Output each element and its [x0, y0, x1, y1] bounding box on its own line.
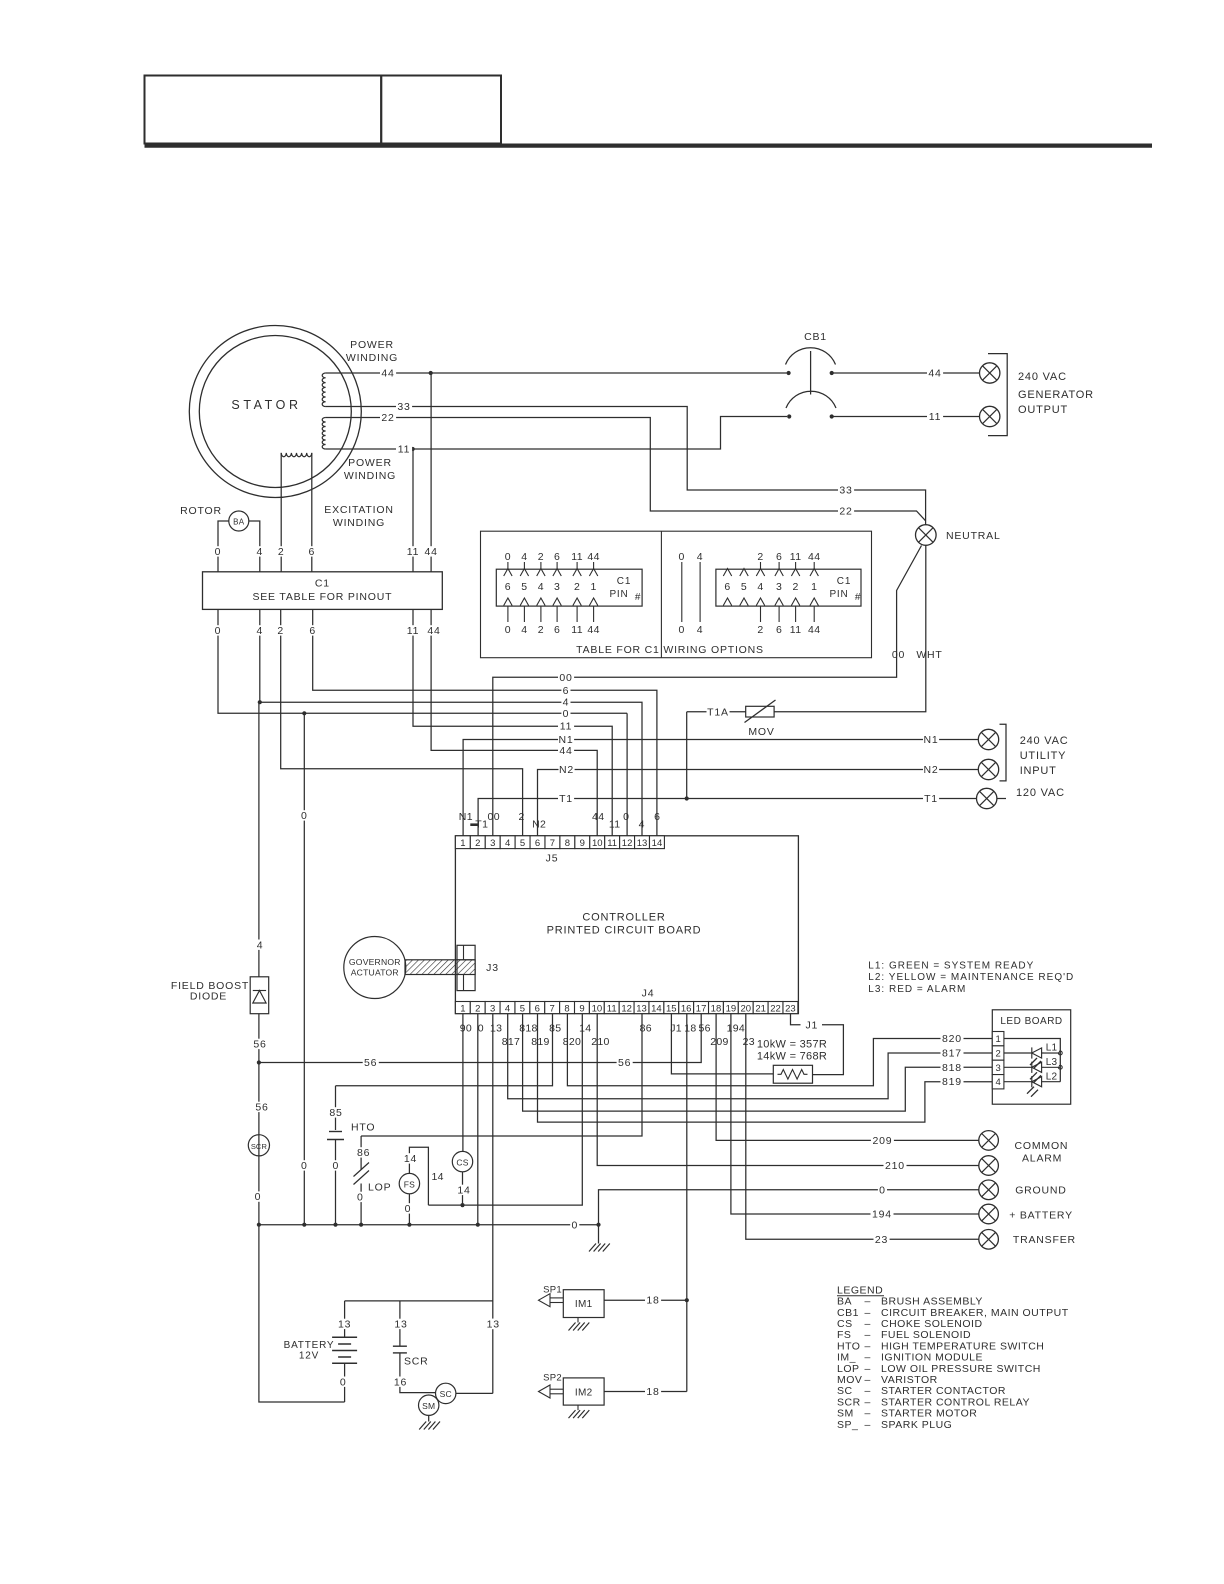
- resistor 357R/768R box: [773, 1065, 812, 1083]
- LED node circles: [1058, 1051, 1062, 1055]
- label 817: [941, 1048, 964, 1058]
- svg-text:210: 210: [885, 1160, 905, 1172]
- svg-text:22: 22: [381, 412, 394, 424]
- svg-text:CB1: CB1: [837, 1307, 859, 1319]
- svg-text:11: 11: [407, 546, 420, 558]
- junction left rail bottom: [257, 1223, 261, 1227]
- label 0: [356, 1192, 365, 1202]
- wire 0 below C1: [218, 609, 627, 713]
- wire 56 pin17: [259, 1014, 701, 1063]
- svg-text:6: 6: [554, 624, 560, 636]
- svg-text:CONTROLLER: CONTROLLER: [582, 912, 665, 924]
- svg-text:N2: N2: [532, 819, 546, 831]
- CB1 contact dots: [787, 371, 791, 375]
- wire 209 pin18 to lamp: [716, 1014, 979, 1141]
- svg-text:56: 56: [253, 1039, 266, 1051]
- label 56: [363, 1057, 379, 1067]
- left pinout box: [496, 569, 642, 606]
- svg-text:2: 2: [995, 1049, 1000, 1060]
- svg-text:16: 16: [681, 1003, 692, 1014]
- wire N2: [538, 770, 979, 836]
- svg-text:–: –: [865, 1340, 871, 1352]
- svg-text:85: 85: [329, 1107, 342, 1119]
- wire 13 pin3 down: [492, 1014, 494, 1394]
- wire SCR to SC: [400, 1353, 436, 1393]
- label 18: [645, 1386, 661, 1396]
- svg-text:SM: SM: [837, 1408, 854, 1420]
- svg-text:4: 4: [697, 551, 704, 563]
- label 56: [254, 1102, 270, 1112]
- connector J3: [457, 945, 475, 990]
- svg-text:44: 44: [808, 624, 820, 636]
- stator inner circle: [199, 336, 351, 488]
- svg-text:6: 6: [776, 551, 782, 563]
- svg-text:11: 11: [398, 444, 411, 456]
- wire N1: [463, 740, 978, 836]
- svg-text:0: 0: [505, 551, 511, 563]
- svg-text:6: 6: [724, 581, 730, 593]
- varistor MOV box: [746, 706, 774, 717]
- svg-text:23: 23: [743, 1036, 755, 1048]
- label 2: [276, 625, 285, 635]
- junction 0 rail: [302, 1223, 306, 1227]
- wire HTO top: [335, 1086, 337, 1130]
- svg-text:14: 14: [651, 1003, 662, 1014]
- svg-text:0: 0: [478, 1023, 484, 1035]
- varistor MOV diagonal: [745, 700, 776, 723]
- svg-text:44: 44: [427, 625, 440, 637]
- label J1: [804, 1020, 820, 1030]
- label 6 inline: [561, 685, 570, 695]
- svg-text:18: 18: [646, 1386, 659, 1398]
- svg-text:BATTERY: BATTERY: [284, 1340, 335, 1351]
- svg-text:–: –: [865, 1374, 871, 1386]
- LED board box: [992, 1010, 1070, 1104]
- svg-text:2: 2: [277, 625, 284, 637]
- lamp 210: [979, 1156, 999, 1176]
- label 44: [423, 546, 439, 556]
- svg-text:4: 4: [995, 1077, 1000, 1088]
- svg-text:2: 2: [518, 811, 524, 823]
- label 11: [927, 411, 943, 421]
- svg-text:5: 5: [520, 838, 525, 849]
- svg-text:T1A: T1A: [707, 706, 729, 718]
- svg-text:90: 90: [460, 1023, 472, 1035]
- actuator shaft hatched: [405, 960, 475, 975]
- controller PCB box: [455, 836, 798, 1014]
- label 33 inline: [396, 401, 412, 411]
- stator outer circle: [189, 326, 361, 498]
- wire 0 branch down: [303, 713, 305, 1224]
- svg-text:DIODE: DIODE: [190, 991, 227, 1003]
- svg-text:11: 11: [571, 624, 583, 636]
- wire SC to 13: [456, 1392, 493, 1394]
- svg-text:85: 85: [549, 1023, 561, 1035]
- title block heavy rule: [145, 144, 1153, 148]
- svg-text:11: 11: [607, 838, 617, 849]
- wire 2 below C1: [281, 609, 523, 835]
- svg-text:14: 14: [652, 838, 663, 849]
- svg-text:UTILITY: UTILITY: [1020, 750, 1067, 762]
- junction 11: [411, 447, 415, 451]
- svg-text:0: 0: [678, 624, 685, 636]
- svg-text:9: 9: [579, 1003, 584, 1014]
- svg-text:N2: N2: [559, 764, 574, 776]
- svg-text:#: #: [855, 592, 861, 603]
- label 4: [255, 546, 264, 556]
- svg-text:BRUSH ASSEMBLY: BRUSH ASSEMBLY: [881, 1296, 983, 1308]
- svg-text:TRANSFER: TRANSFER: [1013, 1234, 1076, 1246]
- label 13: [337, 1319, 353, 1329]
- svg-text:BA: BA: [233, 518, 245, 527]
- left rail below diode: [258, 1014, 260, 1225]
- wire 819 net: [538, 1014, 993, 1123]
- svg-text:7: 7: [550, 838, 555, 849]
- svg-text:4: 4: [563, 697, 570, 709]
- wire 86 pin13 to LOP: [361, 1014, 642, 1136]
- HTO switch bars: [329, 1131, 342, 1133]
- svg-text:00: 00: [487, 811, 499, 823]
- wire 818 net: [523, 1014, 993, 1112]
- svg-text:ACTUATOR: ACTUATOR: [351, 968, 399, 978]
- svg-text:FS: FS: [837, 1329, 851, 1341]
- svg-text:56: 56: [699, 1023, 711, 1035]
- svg-text:0: 0: [215, 546, 222, 558]
- svg-text:T1: T1: [924, 793, 938, 805]
- svg-text:209: 209: [872, 1135, 892, 1147]
- svg-text:#: #: [635, 592, 641, 603]
- svg-text:SC: SC: [440, 1389, 452, 1399]
- C1 connector box: [203, 572, 443, 610]
- svg-text:3: 3: [995, 1063, 1000, 1074]
- label 11: [405, 625, 421, 635]
- svg-text:5: 5: [741, 581, 747, 593]
- svg-text:MOV: MOV: [837, 1374, 862, 1386]
- label 44: [927, 368, 943, 378]
- svg-text:819: 819: [942, 1076, 962, 1088]
- svg-text:6: 6: [535, 838, 540, 849]
- junction pin2 rail: [476, 1223, 480, 1227]
- label 11: [405, 546, 421, 556]
- junction 44: [429, 371, 433, 375]
- power winding coil upper: [322, 373, 325, 407]
- wire 44 drop to C1: [430, 373, 432, 572]
- junction 56 rail: [257, 1060, 261, 1064]
- label 4: [255, 625, 264, 635]
- svg-text:11: 11: [407, 625, 420, 637]
- wire BA left to C1 pin 0: [218, 521, 229, 572]
- svg-text:FS: FS: [404, 1179, 415, 1189]
- svg-text:19: 19: [726, 1003, 737, 1014]
- wire IM1 18: [604, 1299, 687, 1301]
- starter contactor SC: [436, 1383, 456, 1403]
- wire 6 excitation to C1: [311, 453, 313, 572]
- svg-text:4: 4: [697, 624, 704, 636]
- svg-text:VARISTOR: VARISTOR: [881, 1374, 938, 1386]
- label 209: [871, 1135, 894, 1145]
- svg-text:SEE TABLE FOR PINOUT: SEE TABLE FOR PINOUT: [252, 591, 392, 603]
- label 11 inline: [558, 721, 574, 731]
- wire 2 excitation to C1: [280, 453, 282, 572]
- svg-text:PRINTED CIRCUIT BOARD: PRINTED CIRCUIT BOARD: [547, 925, 702, 937]
- svg-text:–: –: [865, 1363, 871, 1375]
- label 0 inline: [561, 708, 570, 718]
- wire 6 below C1: [313, 609, 657, 835]
- wire 820 net: [567, 1014, 992, 1086]
- svg-text:SPARK PLUG: SPARK PLUG: [881, 1419, 952, 1431]
- svg-text:820: 820: [942, 1033, 962, 1045]
- svg-text:MOV: MOV: [748, 726, 774, 738]
- svg-text:LOP: LOP: [368, 1182, 391, 1194]
- svg-text:13: 13: [394, 1319, 407, 1331]
- svg-text:NEUTRAL: NEUTRAL: [946, 530, 1001, 542]
- label 14: [403, 1153, 419, 1163]
- svg-text:CS: CS: [456, 1157, 468, 1167]
- svg-text:0: 0: [405, 1203, 412, 1215]
- wire 11 drop to C1: [412, 449, 414, 572]
- label 16: [393, 1377, 409, 1387]
- svg-text:T1: T1: [559, 793, 573, 805]
- svg-text:56: 56: [255, 1102, 268, 1114]
- wire T1A: [687, 711, 746, 713]
- ground symbol IM2: [577, 1405, 579, 1410]
- svg-text:7: 7: [550, 1003, 555, 1014]
- svg-text:PIN: PIN: [829, 589, 848, 600]
- svg-text:SP1: SP1: [543, 1284, 562, 1295]
- wire 18 pin16 down: [686, 1014, 688, 1392]
- spark plug SP1 arrow: [550, 1297, 563, 1299]
- wire BA right to C1 pin 4: [249, 521, 260, 572]
- svg-text:10: 10: [592, 838, 603, 849]
- svg-text:4: 4: [256, 546, 263, 558]
- neutral lamp: [916, 525, 937, 546]
- svg-text:18: 18: [684, 1023, 696, 1035]
- svg-text:13: 13: [637, 838, 648, 849]
- svg-text:WINDING: WINDING: [344, 470, 396, 482]
- right pinout box: [716, 569, 861, 606]
- svg-text:LED BOARD: LED BOARD: [1000, 1016, 1062, 1027]
- CB1 tie bar: [810, 351, 812, 395]
- label 0: [300, 1160, 309, 1170]
- label 0: [570, 1220, 579, 1230]
- label 33 lower: [838, 485, 854, 495]
- svg-text:14: 14: [432, 1171, 444, 1183]
- svg-text:4: 4: [521, 624, 527, 636]
- wire 44 stator to CB1: [326, 372, 787, 374]
- svg-text:56: 56: [364, 1057, 377, 1069]
- junction T1A on T1: [685, 796, 689, 800]
- svg-text:14kW = 768R: 14kW = 768R: [757, 1051, 827, 1063]
- wire 11 stator run: [326, 417, 787, 450]
- svg-text:11: 11: [609, 819, 621, 831]
- svg-text:6: 6: [563, 685, 570, 697]
- svg-text:0: 0: [563, 708, 570, 720]
- label 13: [487, 1319, 503, 1329]
- svg-text:13: 13: [487, 1319, 500, 1331]
- svg-text:44: 44: [928, 368, 941, 380]
- svg-text:1: 1: [590, 581, 596, 593]
- label 0: [403, 1203, 412, 1213]
- svg-text:EXCITATION: EXCITATION: [324, 504, 393, 516]
- right pinout pins: [723, 569, 731, 577]
- svg-text:6: 6: [309, 625, 316, 637]
- junction LOP rail: [359, 1223, 363, 1227]
- table outer box: [481, 531, 872, 658]
- svg-text:J1: J1: [805, 1019, 818, 1031]
- label 56: [617, 1057, 633, 1067]
- wire 0 into J5 pin12: [626, 713, 628, 836]
- svg-text:194: 194: [727, 1023, 745, 1035]
- generator output bracket: [988, 354, 1007, 436]
- svg-text:WINDING: WINDING: [333, 517, 385, 529]
- svg-text:10: 10: [592, 1003, 603, 1014]
- svg-text:IM1: IM1: [575, 1299, 593, 1310]
- svg-text:11: 11: [560, 721, 573, 733]
- wire 194 pin19 to lamp: [731, 1014, 979, 1214]
- svg-text:L3: L3: [1046, 1057, 1058, 1068]
- svg-text:0: 0: [357, 1192, 364, 1204]
- svg-text:6: 6: [535, 1003, 540, 1014]
- svg-text:13: 13: [636, 1003, 647, 1014]
- svg-text:J4: J4: [642, 988, 655, 1000]
- svg-text:WINDING: WINDING: [346, 352, 398, 364]
- ground symbol IM1: [577, 1318, 579, 1323]
- svg-text:LOP: LOP: [837, 1363, 860, 1375]
- wire T1A drop: [686, 712, 688, 799]
- svg-text:56: 56: [618, 1057, 631, 1069]
- svg-text:2: 2: [475, 838, 480, 849]
- svg-text:IM2: IM2: [575, 1387, 593, 1398]
- svg-text:0: 0: [678, 551, 685, 563]
- svg-text:GOVERNOR: GOVERNOR: [349, 957, 401, 967]
- svg-text:11: 11: [790, 624, 802, 636]
- svg-text:14: 14: [404, 1153, 417, 1165]
- LED board terminals: [992, 1032, 1004, 1046]
- label T1A: [707, 707, 730, 717]
- svg-text:INPUT: INPUT: [1020, 765, 1057, 777]
- svg-text:0: 0: [505, 624, 511, 636]
- label 6: [307, 546, 316, 556]
- svg-text:2: 2: [538, 551, 544, 563]
- svg-text:44: 44: [592, 811, 604, 823]
- label 85: [328, 1107, 344, 1117]
- label 4: [256, 940, 265, 950]
- wire 210 pin10 to lamp: [597, 1014, 979, 1166]
- svg-text:2: 2: [574, 581, 580, 593]
- svg-text:L2: YELLOW = MAINTENANCE REQ': L2: YELLOW = MAINTENANCE REQ'D: [868, 972, 1074, 983]
- wire LOP top: [360, 1136, 362, 1170]
- svg-text:12: 12: [621, 1003, 632, 1014]
- label 13: [485, 1319, 501, 1329]
- LED L3: [1004, 1066, 1032, 1068]
- wire 22 stator run: [326, 418, 926, 521]
- field boost diode symbol: [253, 991, 266, 1004]
- bottom 0 rail: [259, 1224, 599, 1226]
- svg-text:18: 18: [711, 1003, 722, 1014]
- svg-text:FUEL SOLENOID: FUEL SOLENOID: [881, 1329, 971, 1341]
- svg-text:IGNITION MODULE: IGNITION MODULE: [881, 1352, 983, 1364]
- label 56: [252, 1039, 268, 1049]
- table divider: [660, 531, 662, 658]
- svg-text:5: 5: [520, 1003, 525, 1014]
- label 0: [253, 1191, 262, 1201]
- wire J1 to resistor: [813, 1025, 844, 1075]
- ground symbol SM: [419, 1422, 426, 1430]
- label 0: [213, 625, 222, 635]
- wire SM ground: [428, 1415, 430, 1421]
- svg-text:11: 11: [571, 551, 583, 563]
- svg-text:0: 0: [332, 1160, 339, 1172]
- label 210: [884, 1160, 907, 1170]
- wire ground lamp: [599, 1190, 979, 1244]
- wire 44 below C1: [431, 609, 597, 835]
- svg-text:2: 2: [757, 551, 763, 563]
- battery 12V: [332, 1336, 357, 1338]
- svg-text:SM: SM: [422, 1401, 435, 1411]
- svg-text:14: 14: [457, 1185, 470, 1197]
- field boost diode box: [250, 977, 269, 1014]
- svg-text:SCR: SCR: [837, 1396, 861, 1408]
- svg-text:2: 2: [475, 1003, 480, 1014]
- svg-text:0: 0: [879, 1184, 886, 1196]
- lamp 209: [979, 1131, 999, 1151]
- svg-text:21: 21: [755, 1003, 766, 1014]
- svg-text:TABLE FOR C1 WIRING OPTIONS: TABLE FOR C1 WIRING OPTIONS: [576, 644, 764, 656]
- wire J1 pin15 to resistor: [671, 1014, 773, 1074]
- label 44 inline: [380, 368, 396, 378]
- svg-text:23: 23: [875, 1234, 888, 1246]
- label 22 lower: [838, 506, 854, 516]
- svg-text:L3: RED = ALARM: L3: RED = ALARM: [868, 984, 966, 995]
- starter control relay SCR coil: [248, 1135, 269, 1156]
- wire HTO bottom: [335, 1140, 337, 1225]
- LED emission arrows: [1030, 1058, 1037, 1065]
- label 4 inline: [561, 697, 570, 707]
- svg-text:0: 0: [623, 811, 629, 823]
- label 820: [941, 1033, 964, 1043]
- svg-text:4: 4: [505, 838, 510, 849]
- LED anode rail: [1004, 1039, 1060, 1082]
- CB1 lower pole arc: [786, 391, 836, 408]
- svg-text:3: 3: [490, 1003, 495, 1014]
- svg-text:HIGH TEMPERATURE SWITCH: HIGH TEMPERATURE SWITCH: [881, 1340, 1044, 1352]
- svg-text:5: 5: [521, 581, 527, 593]
- starter motor SM: [419, 1395, 439, 1415]
- svg-text:3: 3: [776, 581, 782, 593]
- wire SCR contact branch: [399, 1301, 401, 1346]
- svg-text:15: 15: [666, 1003, 677, 1014]
- wire 44 CB1 to lamp: [832, 372, 980, 374]
- svg-text:817: 817: [502, 1036, 520, 1048]
- label 11 inline: [396, 444, 412, 454]
- svg-text:13: 13: [490, 1023, 502, 1035]
- excitation winding coil: [281, 453, 312, 457]
- svg-text:J5: J5: [546, 853, 559, 865]
- label 00 inline: [558, 672, 574, 682]
- svg-text:12V: 12V: [299, 1351, 319, 1362]
- svg-text:44: 44: [424, 546, 437, 558]
- wire 11 below C1: [413, 609, 612, 835]
- wire CS to 14 rail: [462, 1172, 464, 1205]
- label 44 inline: [558, 745, 574, 755]
- wire IM2 18: [604, 1391, 687, 1393]
- svg-text:818: 818: [519, 1023, 537, 1035]
- svg-text:120 VAC: 120 VAC: [1016, 787, 1065, 799]
- spark plug SP2 arrow: [550, 1388, 563, 1390]
- svg-text:OUTPUT: OUTPUT: [1018, 404, 1068, 416]
- fuel solenoid FS: [399, 1173, 419, 1193]
- left rail to battery: [259, 1225, 345, 1402]
